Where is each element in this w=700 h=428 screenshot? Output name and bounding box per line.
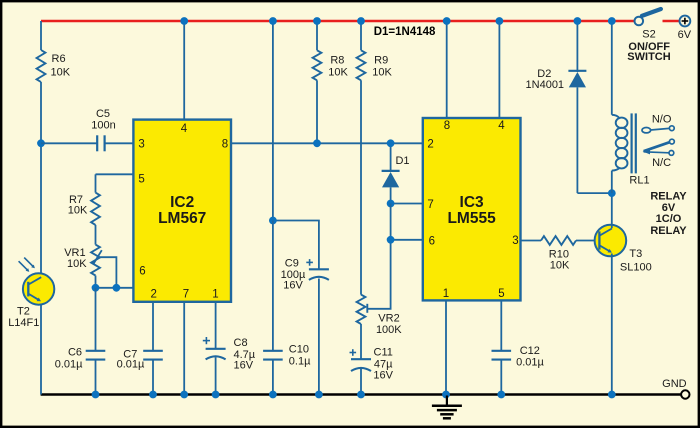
wire D1 to IC3 pin7: [391, 203, 423, 205]
svg-text:100n: 100n: [91, 120, 115, 132]
node C9 ground: [315, 391, 323, 399]
svg-text:2: 2: [427, 139, 433, 151]
svg-text:C12: C12: [520, 345, 540, 357]
svg-text:C8: C8: [234, 337, 248, 349]
node R8 rail: [313, 17, 321, 25]
wire R10 to T3 base: [576, 240, 599, 242]
capacitor C11: [360, 324, 362, 359]
node supply branch rail: [269, 17, 277, 25]
op IC3 LM555 body: [423, 118, 521, 300]
node C6 ground: [92, 391, 100, 399]
ground rail: [41, 393, 682, 396]
node C7 ground: [149, 391, 157, 399]
wire IC3 pin4 to rail: [498, 21, 500, 118]
svg-text:VR2: VR2: [378, 312, 399, 324]
svg-text:6: 6: [429, 235, 435, 247]
node R8 bottom: [313, 139, 321, 147]
svg-text:5: 5: [138, 173, 144, 185]
wire T3 emitter to ground: [611, 254, 613, 395]
svg-text:100K: 100K: [376, 324, 402, 336]
resistor R7: [91, 193, 100, 225]
svg-text:2: 2: [150, 289, 156, 301]
svg-text:1: 1: [212, 289, 218, 301]
svg-text:6V: 6V: [678, 29, 692, 41]
svg-text:7: 7: [183, 289, 189, 301]
svg-text:SL100: SL100: [620, 262, 652, 274]
svg-text:16V: 16V: [283, 280, 303, 292]
wire IC2 pin7 to ground: [183, 302, 185, 395]
switch S2: [635, 17, 644, 26]
wire supply branch: [272, 21, 274, 221]
svg-text:10K: 10K: [67, 258, 87, 270]
6V terminal: [680, 16, 691, 27]
svg-text:D1: D1: [395, 155, 409, 167]
node VR1 wiper join: [113, 284, 121, 292]
transistor T2 (phototransistor): [23, 273, 54, 304]
svg-text:10K: 10K: [68, 205, 88, 217]
svg-text:T3: T3: [629, 248, 642, 260]
node C10 ground: [269, 391, 277, 399]
resistor R8: [316, 21, 318, 50]
wire VR1 bottom to IC2 pin6: [95, 276, 97, 288]
wire T2 emitter to ground rail: [40, 304, 42, 395]
svg-text:10K: 10K: [51, 67, 71, 79]
svg-text:0.01µ: 0.01µ: [516, 357, 544, 369]
node C5 branch: [37, 139, 45, 147]
light arrows into T2: [19, 261, 28, 270]
resistor R6: [40, 21, 42, 50]
svg-text:R9: R9: [374, 55, 388, 67]
svg-text:C11: C11: [374, 347, 393, 359]
preset VR1: [91, 245, 100, 276]
wire IC2 pin5 to R7: [96, 173, 134, 175]
svg-text:10K: 10K: [550, 260, 570, 272]
op IC2 LM567 body: [133, 120, 231, 302]
svg-text:16V: 16V: [373, 369, 393, 381]
node IC3 pin8 rail: [443, 17, 451, 25]
svg-text:C6: C6: [68, 346, 82, 358]
svg-text:RELAY: RELAY: [650, 225, 687, 237]
svg-text:4: 4: [181, 123, 188, 135]
svg-text:R10: R10: [549, 248, 569, 260]
relay RL1 coil: [611, 21, 613, 115]
node D1 top: [387, 139, 395, 147]
wire IC3 pin3 to R10: [521, 240, 542, 242]
node pin6 junction: [387, 236, 395, 244]
capacitor C6: [95, 288, 97, 351]
svg-text:5: 5: [498, 288, 504, 300]
node pin7 junction: [387, 200, 395, 208]
svg-text:N/C: N/C: [652, 157, 671, 169]
node IC3 pin4 rail: [496, 17, 504, 25]
svg-text:R8: R8: [330, 55, 344, 67]
svg-text:8: 8: [444, 120, 450, 132]
node relay coil bottom: [608, 189, 616, 197]
node relay rail: [608, 17, 616, 25]
resistor R10: [541, 236, 576, 245]
relay core: [630, 113, 632, 173]
node R9 rail: [357, 17, 365, 25]
svg-text:IC3: IC3: [460, 194, 485, 211]
svg-text:10K: 10K: [372, 67, 392, 79]
node IC2 pin7 ground: [180, 391, 188, 399]
wire to IC3 pin6: [391, 239, 423, 241]
svg-text:0.01µ: 0.01µ: [55, 359, 83, 371]
plus C9: [306, 261, 313, 263]
svg-text:D2: D2: [537, 68, 551, 80]
wire pin7 to pin6 junction: [390, 204, 392, 240]
svg-text:R6: R6: [52, 53, 66, 65]
svg-text:RELAY: RELAY: [650, 190, 687, 202]
node T3 ground: [608, 391, 616, 399]
wire IC2 pin4 to rail: [183, 21, 185, 120]
svg-text:C5: C5: [96, 108, 110, 120]
GND terminal: [681, 390, 689, 398]
wire red rail to 6V terminal: [663, 20, 680, 23]
svg-text:C10: C10: [289, 344, 309, 356]
plus C8: [203, 340, 210, 342]
svg-text:RL1: RL1: [629, 175, 649, 187]
relay contacts: [642, 128, 651, 133]
wire T3 collector: [611, 193, 613, 228]
positive supply rail (red): [41, 20, 635, 23]
svg-text:GND: GND: [662, 378, 687, 390]
wire branch to C9: [273, 221, 319, 270]
node IC2 pin4 rail: [180, 17, 188, 25]
plus C11: [350, 352, 357, 354]
svg-text:0.01µ: 0.01µ: [117, 359, 145, 371]
diode D2: [576, 21, 578, 72]
preset VR2: [357, 295, 366, 324]
capacitor C7: [152, 302, 154, 351]
capacitor C12: [500, 300, 502, 350]
svg-text:7: 7: [427, 199, 433, 211]
svg-text:S2: S2: [642, 29, 655, 41]
node IC3 pin1 ground: [442, 391, 450, 399]
svg-text:IC2: IC2: [170, 194, 194, 211]
svg-text:1N4001: 1N4001: [526, 79, 565, 91]
svg-text:1C/O: 1C/O: [656, 213, 682, 225]
wire IC3 pin1 to ground: [445, 300, 447, 394]
node VR1 bottom: [92, 284, 100, 292]
capacitor C10: [272, 221, 274, 351]
svg-text:C9: C9: [285, 258, 299, 270]
svg-text:N/O: N/O: [652, 114, 672, 126]
svg-text:L14F1: L14F1: [8, 317, 39, 329]
diode D1: [390, 143, 392, 172]
svg-text:10K: 10K: [328, 67, 348, 79]
svg-text:LM555: LM555: [447, 210, 496, 227]
capacitor C8: [215, 302, 217, 349]
svg-text:4: 4: [498, 120, 505, 132]
node C8 ground: [212, 391, 220, 399]
ground symbol: [446, 396, 448, 406]
node C9 split: [269, 217, 277, 225]
svg-text:8: 8: [222, 139, 228, 151]
svg-text:0.1µ: 0.1µ: [289, 356, 311, 368]
node C12 ground: [497, 391, 505, 399]
resistor R9: [360, 21, 362, 50]
svg-text:16V: 16V: [234, 360, 254, 372]
capacitor C5: [41, 142, 97, 144]
svg-text:6: 6: [139, 265, 145, 277]
svg-text:D1=1N4148: D1=1N4148: [374, 26, 436, 38]
node D2 rail: [574, 17, 582, 25]
capacitor C9: [309, 268, 329, 270]
svg-text:3: 3: [512, 235, 518, 247]
wire IC3 pin8 to rail: [446, 21, 448, 118]
svg-text:SWITCH: SWITCH: [627, 51, 670, 63]
svg-text:1: 1: [443, 288, 449, 300]
wire R7 to VR1: [95, 225, 97, 245]
svg-text:3: 3: [138, 139, 144, 151]
svg-text:T2: T2: [17, 305, 30, 317]
svg-text:LM567: LM567: [158, 210, 206, 227]
transistor T3: [595, 225, 627, 257]
wire R6 to T2 collector: [40, 143, 42, 274]
node C11 ground: [357, 391, 365, 399]
wire IC2 pin8 to IC3 pin2: [231, 142, 423, 144]
